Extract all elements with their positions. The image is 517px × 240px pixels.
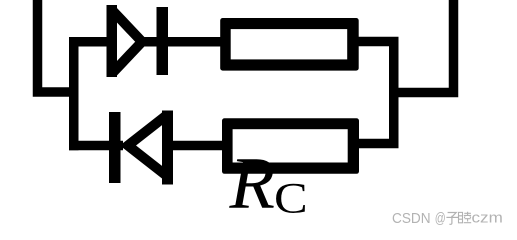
resistor (top) inner white: [231, 29, 348, 59]
wire: right outer lead from top edge down then left: [394, 0, 454, 93]
wire: bottom branch, node to diode D2 cathode: [69, 141, 123, 151]
watermark glyph zi: [446, 213, 458, 225]
wire: bottom branch, diode D2 anode to resistor RC: [167, 141, 228, 151]
diode D2 cathode bar: [109, 112, 121, 183]
diode D2 triangle (pointing left): [128, 115, 168, 177]
resistor RC (bottom) body: [222, 118, 359, 174]
svg-text:czm: czm: [472, 209, 503, 226]
svg-text:CSDN: CSDN: [392, 210, 431, 227]
wire: top branch, node to diode D1 anode: [69, 37, 113, 47]
wire: left outer lead from top edge down then right: [38, 0, 74, 92]
svg-text:@: @: [435, 210, 446, 227]
diode D1 cathode bar: [157, 7, 169, 75]
svg-text:R: R: [229, 143, 276, 225]
diode D1 anode bar: [107, 5, 118, 77]
resistor RC (bottom) inner white: [233, 129, 348, 162]
watermark glyph mu: [459, 212, 472, 223]
wire: top branch right, resistor to right inner vertical, down to bottom branch: [354, 42, 394, 144]
svg-text:C: C: [274, 175, 308, 222]
diode D2 anode bar: [162, 111, 173, 185]
wire: top branch, diode D1 cathode to resistor: [141, 37, 226, 47]
wire: left inner vertical bus: [69, 37, 79, 150]
resistor (top) body: [220, 18, 359, 71]
diode D1 triangle (pointing right): [112, 10, 142, 74]
